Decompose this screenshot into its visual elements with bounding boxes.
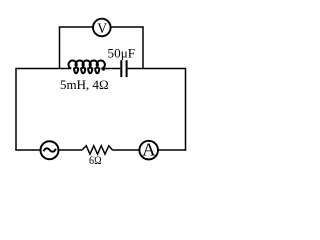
svg-text:V: V — [97, 21, 107, 37]
wire: source to resistor — [60, 149, 83, 151]
wire: ammeter to right corner — [159, 149, 187, 151]
svg-text:5mH, 4Ω: 5mH, 4Ω — [60, 77, 109, 92]
AC source V1 circle — [41, 141, 59, 159]
wire: voltmeter loop left vertical — [59, 27, 61, 69]
wire: middle branch left segment — [16, 68, 71, 70]
wire: bottom left segment — [15, 149, 39, 151]
inductor L1 coil 5mH,4Ohm — [69, 61, 105, 74]
wire: resistor to ammeter — [113, 149, 139, 151]
capacitor C1 left plate — [120, 60, 122, 77]
svg-text:50μF: 50μF — [108, 45, 136, 60]
wire: voltmeter loop right vertical — [142, 26, 144, 68]
wire: voltmeter loop top right segment — [112, 26, 144, 28]
ammeter U2 circle — [139, 141, 158, 160]
capacitor C1 right plate — [126, 60, 128, 77]
wire: middle branch between coil and capacitor — [104, 68, 120, 70]
svg-text:6Ω: 6Ω — [89, 153, 102, 167]
svg-text:A: A — [142, 139, 156, 159]
voltmeter U1 circle — [93, 19, 111, 37]
wire: right vertical — [185, 68, 187, 151]
wire: voltmeter loop top left segment — [59, 26, 93, 28]
wire: middle branch right segment — [128, 68, 186, 70]
resistor R1 zigzag — [82, 146, 113, 155]
wire: left vertical — [15, 68, 17, 150]
AC source sine symbol — [44, 148, 56, 151]
